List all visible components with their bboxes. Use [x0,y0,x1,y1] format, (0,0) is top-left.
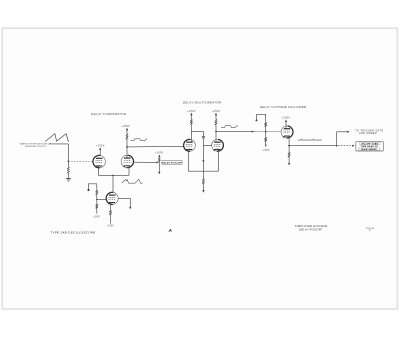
svg-text:MAIN SWEEP: MAIN SWEEP [361,148,377,151]
wire V3b grid lead [203,145,211,147]
svg-text:ON-OFF TUBE: ON-OFF TUBE [361,143,378,145]
wire V1a cathode lead [97,166,99,175]
wire V1b grid lead to delay pot wiper [134,161,158,163]
svg-text:+250V: +250V [282,117,291,120]
svg-text:A: A [168,228,172,233]
wire CF divider hook [257,114,266,122]
resistor R4 divider lower [96,199,98,204]
node V2 grid junction [96,199,97,200]
svg-text:+250V: +250V [187,110,196,113]
wire V3a cathode lead [187,149,189,171]
wire MV right plate to cathode follower grid [216,130,281,132]
svg-text:DELAY COMPARATOR: DELAY COMPARATOR [91,112,127,116]
svg-text:TYPE 24B OSCILLOSCOPE: TYPE 24B OSCILLOSCOPE [50,230,95,234]
svg-text:+250V: +250V [122,125,131,128]
node CF divider junction [265,131,267,133]
wire CF output line [289,145,337,147]
svg-text:+250V: +250V [212,110,221,113]
svg-text:DELAY PICKOFF: DELAY PICKOFF [162,161,182,164]
svg-text:DELAYING CIRCUIT: DELAYING CIRCUIT [25,145,47,148]
wire dashed output to sweep box [338,145,350,147]
label box DELAY PICKOFF potentiometer [162,161,182,165]
wire V2 grid lead [97,198,107,200]
svg-text:AND SWEEP: AND SWEEP [358,132,377,135]
resistor R1 grid leak [67,161,69,167]
wire branch up to trigger gate [336,132,338,146]
resistor R9 CF divider upper [265,122,267,126]
svg-text:-105V: -105V [106,225,114,227]
terminal dot V2 divider top [87,189,89,191]
resistor R5 V2 cathode [110,203,112,210]
capacitor C1 MV coupling [202,131,204,136]
triode V1b delay comparator right [121,155,133,167]
node CF cathode junction [288,145,290,147]
resistor R3 divider upper [96,190,98,195]
triode V3b delay multivibrator right [212,139,224,151]
inner box main sweep [358,148,380,150]
svg-text:+105V: +105V [155,152,163,154]
square wave at comparator output [131,139,148,141]
resistor R6 MV left plate load [190,115,192,120]
node cathode bus tap [112,175,114,177]
wire comparator cathode bus [98,174,129,176]
potentiometer delay pot [158,156,160,159]
wire V1b plate to MV left grid [127,145,184,148]
resistor R2 V1b plate load [126,130,128,134]
wire V1b cathode lead [128,168,130,176]
resistor R7 MV right plate load [215,115,217,120]
wire V1b plate lead [126,147,128,158]
wire V2 right lead to negative supply [118,198,130,206]
node MV grid resistor junction [203,160,205,162]
svg-text:DELAY CATHODE FOLLOWER: DELAY CATHODE FOLLOWER [260,105,307,109]
sawtooth input waveform [45,134,69,142]
wire comparator cathode to V2 plate [112,175,114,192]
wire V1a plate lead [99,150,101,156]
svg-text:DELAY MULTIVIBRATOR: DELAY MULTIVIBRATOR [183,101,222,105]
triode V4 delay cathode follower [281,126,293,138]
wire CF plate lead [285,122,287,129]
triode V3a delay multivibrator left [184,139,196,151]
wire MV center grid line [202,138,204,160]
svg-text:SAWTOOTH FROM PLATE OF: SAWTOOTH FROM PLATE OF [20,143,52,146]
node output branch [336,145,338,147]
triode V2 pickoff [106,192,118,204]
wire input to grid node [50,143,69,145]
wire MV cross-coupling top [191,130,203,132]
svg-text:-105V: -105V [92,217,100,219]
wire divider top hook [89,184,97,191]
node input grid junction [68,160,70,162]
wire MV center to grid resistor [202,161,204,179]
svg-text:DELAY PICKOFF: DELAY PICKOFF [299,228,322,232]
terminal dot CF divider [256,119,258,121]
node V1b plate junction [126,146,128,148]
resistor R11 CF cathode load [288,146,290,153]
delayed trigger waveform [298,139,322,140]
svg-text:+250V: +250V [96,145,105,148]
ground [66,178,71,180]
wire MV cathode bus [188,170,218,172]
triode V1a delay comparator left [93,155,105,167]
wire CF cathode lead [288,136,290,146]
node on coupling line [251,131,253,133]
peaked sawtooth waveform below comparator [122,179,143,183]
destination box on-off tube main sweep [356,142,384,151]
resistor R10 CF divider lower [265,132,267,138]
square wave MV output [221,126,238,128]
node MV right plate junction [215,131,217,133]
wire dashed grid lead V1a [68,160,92,162]
wire V3b cathode lead [217,149,219,171]
resistor R8 MV grid leak [202,179,204,185]
svg-text:-105V: -105V [262,150,270,152]
